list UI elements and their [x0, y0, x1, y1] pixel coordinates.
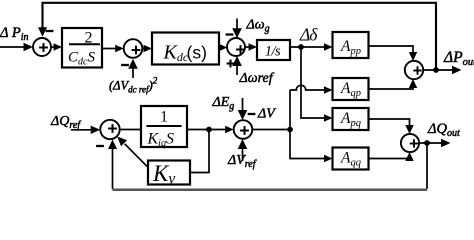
svg-text:Δωref: Δωref — [239, 71, 275, 86]
minus sign for ΔE_g input — [248, 113, 256, 115]
wire G4 output to node and S5 — [187, 129, 226, 131]
wire G1 to summing junction S2 — [102, 48, 116, 50]
summing junction S6 (ΔP_out adder) — [405, 61, 423, 79]
block Aqq — [333, 148, 369, 170]
wire Kv output diagonal to S4 — [125, 144, 148, 168]
wire App output to S6 top — [369, 46, 414, 53]
wire ΔV_ref input arrow into S5 bottom — [242, 148, 244, 161]
plus sign inside S1 — [39, 47, 48, 49]
svg-text:Δδ: Δδ — [299, 25, 318, 45]
svg-text:ΔV: ΔV — [257, 107, 276, 122]
wire ΔP_in input arrow — [0, 46, 26, 48]
svg-text:(s): (s) — [187, 43, 207, 63]
wire Δω_g input arrow into S3 top — [236, 19, 238, 30]
block G3 integrator 1/s — [257, 40, 290, 60]
minus sign for (ΔVdcref)^2 input — [121, 64, 129, 66]
node on ΔP_out line feeding top feedback — [433, 67, 439, 73]
wire S4 to block 1/(Kiq S) — [120, 129, 141, 131]
wire Aqp output to S6 bottom — [369, 88, 414, 90]
wire Aqq output to S7 bottom — [369, 159, 410, 162]
svg-text:1: 1 — [160, 109, 168, 126]
wire S3 to integrator 1/s — [245, 46, 250, 48]
wire ΔV branch up with crossover hop to Aqp — [289, 90, 291, 130]
wire top feedback from ΔP_out node to S1 — [43, 3, 437, 70]
wire S2 to block Kdc(s) — [142, 48, 145, 50]
fraction bar in G1 — [69, 43, 100, 45]
wire S6 output with node to ΔP_out — [423, 69, 453, 71]
block G2 compensator Kdc(s) — [152, 33, 219, 65]
plus sign for Δωref input — [227, 62, 235, 64]
wire S5 output ΔV to node — [252, 129, 290, 131]
plus sign inside S2 — [132, 49, 141, 51]
plus sign inside S5 — [240, 130, 249, 132]
fraction bar in G4 — [147, 125, 182, 127]
plus sign inside S7 — [410, 143, 418, 145]
wire ΔE_g input arrow into S5 top — [242, 98, 244, 111]
node after G4 feeding Kv tap — [206, 127, 212, 133]
minus sign for bottom feedback into S4 — [96, 145, 104, 147]
block G5 voltage droop gain Kv — [148, 161, 190, 185]
wire Δδ branch down to Apq — [301, 47, 325, 118]
wire S1 to block 2/CdcS — [51, 46, 56, 48]
svg-text:2: 2 — [85, 30, 93, 47]
block Aqp — [333, 78, 369, 100]
wire (ΔVdcref)^2 input arrow into S2 bottom — [132, 67, 134, 78]
summing junction S3 (frequency comparator) — [227, 38, 245, 56]
wire ΔV branch down to Aqq — [290, 130, 325, 159]
node Δδ junction dot — [298, 44, 304, 50]
summing junction S5 (voltage comparator) — [234, 120, 253, 139]
minus sign for feedback into S1 — [46, 30, 54, 32]
block G4 transfer function 1/(Kiq S) — [141, 106, 187, 147]
wire Δωref input arrow into S3 bottom — [236, 66, 238, 75]
svg-text:1/s: 1/s — [265, 44, 281, 60]
summing junction S7 (ΔQ_out adder) — [401, 134, 419, 152]
plus sign inside S6 — [413, 70, 421, 72]
wire bottom feedback from ΔQ_out node to S4 — [426, 143, 428, 189]
wire ΔQ_ref input arrow — [71, 129, 92, 131]
node ΔV junction dot — [287, 127, 293, 133]
plus sign inside S3 — [236, 49, 245, 51]
plus sign inside S4 — [108, 128, 117, 130]
wire Kdc(s) to summing junction S3 — [219, 47, 221, 49]
wire Apq output to S7 top — [369, 119, 410, 126]
block Apq — [333, 108, 369, 130]
node on ΔQ_out line feeding bottom feedback — [424, 140, 430, 146]
minus sign for S3 left input — [226, 33, 234, 35]
summing junction S2 (dc voltage comparator) — [124, 39, 143, 58]
block G1 transfer function 2/(Cdc S) — [62, 28, 102, 68]
wire S7 output with node to ΔQ_out — [419, 142, 442, 144]
wire Kv tap from node down into Kv — [190, 130, 209, 173]
summing junction S1 (ΔP input comparator) — [33, 38, 51, 56]
wire 1/s to node Δδ and on to App — [290, 46, 326, 48]
block App — [333, 32, 369, 58]
summing junction S4 (ΔQ comparator) — [100, 120, 119, 139]
